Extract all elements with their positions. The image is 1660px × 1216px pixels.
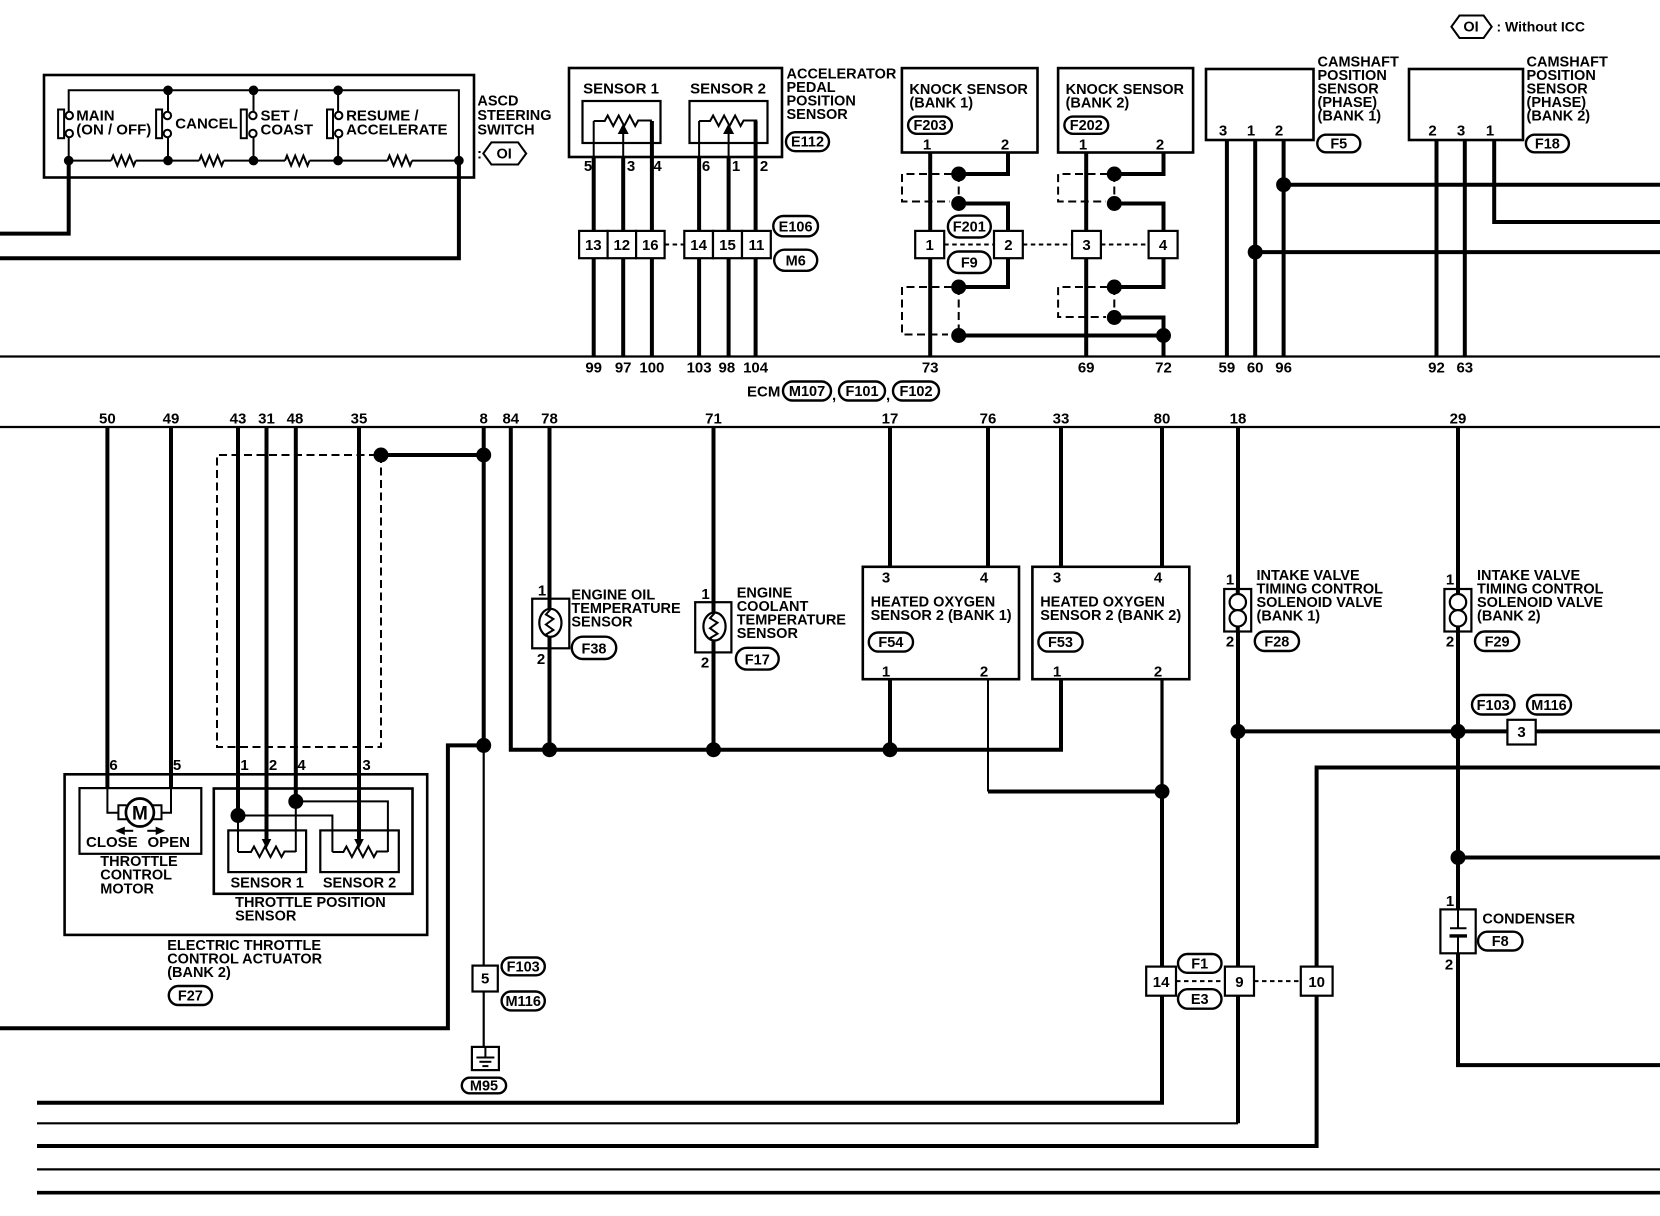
wire: ECM 8 down to ground <box>482 427 486 745</box>
wire: pin1 branch to sensor2 resistor left <box>238 816 332 853</box>
wire: CMP bank1 pin3 to ECM 59 <box>1225 140 1229 357</box>
svg-text:1: 1 <box>882 664 890 681</box>
bottom bus line 5 <box>37 1191 1660 1195</box>
connector F8 <box>1478 932 1523 951</box>
TPS sensor 2 wiper arrow <box>354 839 364 849</box>
shield dashed link G-H <box>1113 287 1115 318</box>
svg-text:43: 43 <box>230 411 247 428</box>
svg-text:SWITCH: SWITCH <box>477 123 534 139</box>
svg-text:M6: M6 <box>786 254 806 270</box>
connector cell 9 (F1/E3) <box>1225 967 1254 996</box>
arrow open (right) <box>147 827 165 835</box>
connector F28 <box>1255 632 1299 652</box>
APP sensor 1 wiper arrow <box>618 124 629 135</box>
node shield D <box>951 328 966 343</box>
symbol: OI hexagon (legend, top right) <box>1451 16 1585 39</box>
node: top rail junction (set/coast) <box>249 86 259 96</box>
svg-text:49: 49 <box>163 411 180 428</box>
shield dashed box (knock bank1 upper) <box>902 174 952 202</box>
svg-text:1: 1 <box>538 583 546 600</box>
svg-text:E112: E112 <box>791 135 824 151</box>
TPS sensor 1 wiper arrow <box>262 839 272 849</box>
wire: shield node B to connector 2 <box>959 204 1008 231</box>
wire: HO2S bank1 pin2 to bank2 pin2 <box>987 679 989 791</box>
svg-text:59: 59 <box>1219 360 1236 377</box>
wire: IVT solenoid ground rail to right edge <box>1238 729 1660 733</box>
svg-text:CONDENSER: CONDENSER <box>1482 912 1575 928</box>
svg-text:80: 80 <box>1154 411 1171 428</box>
APP sensor 1 box <box>583 101 661 143</box>
svg-text:2: 2 <box>1156 137 1164 154</box>
connector cell 4 (F201/F9) <box>1149 231 1178 258</box>
svg-text:2: 2 <box>1428 123 1436 140</box>
wire: ASCD output 2 to left edge <box>0 161 459 259</box>
node: TPS pin1 branch <box>231 808 246 823</box>
svg-text:M107: M107 <box>789 384 825 400</box>
connector cell 2 (F201/F9) <box>994 231 1023 258</box>
svg-text:F29: F29 <box>1485 634 1510 650</box>
wire: pin4 branch to sensor2 resistor right <box>296 801 388 852</box>
intake valve timing control solenoid valve (bank 2) F29 <box>1444 589 1471 632</box>
knock sensor (bank 1) box F203 <box>902 68 1038 152</box>
wire: knock bank2 pin1 to ECM 69 <box>1084 153 1088 357</box>
node: wire 8 joint with ETC ground rail <box>476 738 491 753</box>
svg-text:E3: E3 <box>1191 992 1209 1008</box>
svg-text:1: 1 <box>1053 664 1061 681</box>
svg-text:SENSOR: SENSOR <box>571 615 633 631</box>
connector M116 (right) <box>1527 695 1571 715</box>
wire: CMP bank2 pin3 to ECM 63 <box>1463 140 1467 357</box>
camshaft position sensor (phase) (bank 2) box F18 <box>1409 69 1523 140</box>
svg-text:73: 73 <box>922 360 939 377</box>
wire: connector 4 down to shield node G <box>1114 258 1163 287</box>
svg-text:2: 2 <box>760 158 768 175</box>
connector cell 15 <box>713 231 742 258</box>
svg-text:4: 4 <box>1159 237 1168 254</box>
wire: ASCD output 1 to left edge <box>0 161 69 234</box>
connector cell 16 <box>636 231 665 258</box>
svg-text:ACCELERATE: ACCELERATE <box>346 122 447 139</box>
ECM connector F102 <box>893 382 939 401</box>
svg-text:50: 50 <box>99 411 116 428</box>
svg-text:COAST: COAST <box>261 122 314 139</box>
connector F201 <box>948 216 991 238</box>
svg-text:97: 97 <box>615 360 632 377</box>
svg-text:F28: F28 <box>1264 634 1289 650</box>
electric throttle control actuator (bank 2) outer box F27 <box>65 774 428 935</box>
shield dashed box (knock bank1 lower) <box>902 287 952 335</box>
svg-text:(BANK 1): (BANK 1) <box>909 96 973 112</box>
svg-text:4: 4 <box>980 570 989 587</box>
wire pin4 APP1 <box>650 121 654 357</box>
svg-text:8: 8 <box>480 411 488 428</box>
svg-text:11: 11 <box>748 237 764 254</box>
connector E112 <box>786 132 829 151</box>
node shield top B <box>951 196 966 211</box>
wire pin1 APP2 (wiper) <box>728 133 730 157</box>
wire: CMP bank2 pin1 to right edge y=222 <box>1494 140 1660 222</box>
wire: CMP bank1 pin2 to ECM 96 <box>1282 140 1286 357</box>
node: bottom rail junction (right end) <box>454 156 464 166</box>
node: top rail junction (resume) <box>333 86 343 96</box>
dashed link cells 9-10 <box>1254 980 1301 982</box>
connector F18 <box>1526 135 1569 153</box>
wire: ECM 31 to TPS pin2 <box>265 427 269 839</box>
node: shield top on wire 8 <box>476 448 491 463</box>
APP sensor 2 potentiometer <box>699 116 757 127</box>
wire pin3 APP1 (wiper) <box>622 133 624 157</box>
svg-text:3: 3 <box>882 570 890 587</box>
svg-text:98: 98 <box>719 360 736 377</box>
svg-text:33: 33 <box>1053 411 1070 428</box>
svg-text:76: 76 <box>980 411 997 428</box>
ground M95 <box>472 1047 499 1070</box>
label HEATED OXYGEN SENSOR 2 (BANK 1) <box>871 595 1012 625</box>
svg-text:99: 99 <box>585 360 602 377</box>
svg-text:104: 104 <box>743 360 769 377</box>
label HEATED OXYGEN SENSOR 2 (BANK 2) <box>1040 595 1181 625</box>
svg-text:SENSOR 1: SENSOR 1 <box>583 81 659 98</box>
connector F29 <box>1475 632 1519 652</box>
ECM connector F101 <box>839 382 890 405</box>
svg-text:E106: E106 <box>779 219 813 235</box>
svg-text:SENSOR: SENSOR <box>787 107 849 123</box>
heated oxygen sensor 2 (bank 2) box F53 <box>1032 567 1189 679</box>
wire: HO2S bank1 pin1 to sensor rail <box>888 679 892 750</box>
node shield F <box>1107 196 1122 211</box>
wire: shield H to ECM 72 <box>1114 318 1163 357</box>
svg-text:63: 63 <box>1456 360 1473 377</box>
svg-text:13: 13 <box>585 237 602 254</box>
connector F203 <box>908 117 952 134</box>
wire: line y=767 to right edge with drop to connector 10 <box>37 768 1660 1147</box>
label ACCELERATOR PEDAL POSITION SENSOR <box>787 67 897 124</box>
svg-text:3: 3 <box>362 757 370 774</box>
node shield C <box>951 280 966 295</box>
connector cell 5 (F103/M116) <box>473 966 498 992</box>
wire: ECM 49 to throttle motor pin5 <box>169 427 173 788</box>
wire: shield top to pin 8 wire <box>381 453 484 457</box>
heated oxygen sensor 2 (bank 1) box F54 <box>863 567 1019 679</box>
bottom bus line 4 <box>37 1168 1660 1170</box>
svg-text:1: 1 <box>732 158 740 175</box>
svg-text:CANCEL: CANCEL <box>175 116 238 133</box>
arrow close (left) <box>115 827 133 835</box>
svg-text:ECM: ECM <box>747 384 780 401</box>
wire: IVT bank1 down through connector 9 to bottom line 2 <box>1236 632 1240 1124</box>
svg-text:2: 2 <box>1275 123 1283 140</box>
svg-text:2: 2 <box>1004 237 1012 254</box>
wire pin2 APP2 <box>754 121 758 357</box>
shield dashed box (knock bank2 upper) <box>1058 174 1108 202</box>
ASCD internal top rail <box>69 90 459 160</box>
connector cell 14 <box>684 231 713 258</box>
connector M6 <box>774 250 817 271</box>
wire: branch to right edge y=857 <box>1458 856 1660 860</box>
svg-text:3: 3 <box>1517 724 1525 741</box>
svg-text:1: 1 <box>1079 137 1087 154</box>
APP sensor 2 wiper arrow <box>723 124 734 135</box>
wire: ECM 29 to IVT solenoid bank2 <box>1456 427 1460 589</box>
svg-text:M116: M116 <box>505 994 540 1010</box>
shield dashed box around TPS wires <box>217 455 381 747</box>
dashed link cells 14-9 <box>1176 980 1225 982</box>
connector F17 <box>736 648 779 670</box>
svg-text:2: 2 <box>1154 664 1162 681</box>
svg-text:F203: F203 <box>913 118 946 134</box>
wire: pin1 down to sensor1 resistor left <box>237 816 239 853</box>
svg-text:F17: F17 <box>745 652 770 668</box>
svg-text:(BANK 2): (BANK 2) <box>1527 109 1591 125</box>
node: rail joint wire 71 <box>706 742 721 757</box>
node: O2 ground joint <box>1155 784 1170 799</box>
motor M circle <box>126 799 154 827</box>
label THROTTLE POSITION SENSOR <box>235 895 386 925</box>
svg-text:OI: OI <box>497 146 512 162</box>
wire: condenser to right edge y=1065 <box>1458 953 1660 1065</box>
svg-text:15: 15 <box>719 237 736 254</box>
shield dashed box (knock bank2 lower) <box>1058 287 1108 317</box>
TPS sensor 1 box <box>228 830 306 872</box>
wire: ECM 48 to TPS pin4 <box>294 427 298 801</box>
svg-text:F201: F201 <box>953 220 986 236</box>
connector F103 (ground path) <box>502 958 545 976</box>
svg-text:78: 78 <box>541 411 558 428</box>
svg-text:SENSOR: SENSOR <box>235 909 297 925</box>
svg-text:(BANK 2): (BANK 2) <box>167 965 231 981</box>
svg-text:SENSOR 1: SENSOR 1 <box>231 876 304 892</box>
ECM top boundary line <box>0 355 1660 357</box>
svg-text:69: 69 <box>1078 360 1095 377</box>
svg-text:MOTOR: MOTOR <box>100 881 154 897</box>
wire: knock bank1 pin2 to shield node <box>959 153 1008 175</box>
wire: pin5 to motor right brush <box>162 788 172 813</box>
svg-text:4: 4 <box>297 757 306 774</box>
switch SET / COAST <box>241 90 313 160</box>
connector cell 10 (F1/E3) <box>1301 967 1333 996</box>
connector E106 <box>773 216 818 236</box>
node shield top A <box>951 167 966 182</box>
svg-text:4: 4 <box>653 158 662 175</box>
svg-text:CLOSE: CLOSE <box>86 834 138 851</box>
wire: IVT bank2 continues down to condenser <box>1456 632 1460 910</box>
svg-text:F1: F1 <box>1191 956 1208 972</box>
connector cell 11 <box>742 231 771 258</box>
svg-text:71: 71 <box>705 411 722 428</box>
connector cell 13 <box>579 231 608 258</box>
svg-text:12: 12 <box>613 237 630 254</box>
engine oil temperature sensor F38 <box>532 599 569 649</box>
svg-text:SENSOR 2: SENSOR 2 <box>323 876 396 892</box>
svg-text:(BANK 1): (BANK 1) <box>1257 609 1321 625</box>
svg-text:10: 10 <box>1308 974 1325 991</box>
motor left brush <box>118 805 126 819</box>
dashed link cells 3-4 <box>1101 244 1149 246</box>
label INTAKE VALVE TIMING CONTROL SOLENOID VALVE (BANK 2) <box>1477 568 1604 625</box>
connector E3 <box>1178 989 1222 1009</box>
svg-text:F103: F103 <box>1477 698 1510 714</box>
svg-text:1: 1 <box>923 137 931 154</box>
camshaft position sensor (phase) (bank 1) box F5 <box>1206 69 1314 140</box>
svg-text:14: 14 <box>1153 974 1170 991</box>
svg-text:1: 1 <box>1486 123 1494 140</box>
wire: HO2S bank2 pin2 down through connector 14 to bottom line 1 <box>1160 679 1163 791</box>
TPS sensor 2 box <box>320 830 399 872</box>
svg-text:2: 2 <box>1446 634 1454 651</box>
svg-text:F54: F54 <box>878 635 903 651</box>
svg-text:F202: F202 <box>1070 118 1103 134</box>
svg-text:100: 100 <box>639 360 664 377</box>
svg-text:72: 72 <box>1155 360 1172 377</box>
APP sensor 2 box <box>690 101 768 143</box>
connector cell 3 (F201/F9) <box>1072 231 1101 258</box>
svg-text:F18: F18 <box>1535 136 1560 152</box>
svg-text:1: 1 <box>1446 572 1454 589</box>
label CAMSHAFT POSITION SENSOR (PHASE) (BANK 2) <box>1527 55 1608 125</box>
wire: CMP bank2 pin2 to ECM 92 <box>1435 140 1439 357</box>
connector cell 3 (F103/M116) <box>1507 720 1535 745</box>
engine coolant temperature sensor F17 <box>695 602 731 652</box>
svg-text:6: 6 <box>702 158 710 175</box>
label ELECTRIC THROTTLE CONTROL ACTUATOR (BANK 2) <box>167 938 322 981</box>
svg-text:31: 31 <box>258 411 275 428</box>
node: bottom rail junction (cancel) <box>163 156 173 166</box>
svg-text:OI: OI <box>1463 20 1478 36</box>
svg-text:(BANK 2): (BANK 2) <box>1066 96 1130 112</box>
svg-text:F5: F5 <box>1330 136 1347 152</box>
wire: ECM 35 to TPS pin3 <box>357 427 361 839</box>
svg-text:M: M <box>132 804 148 825</box>
resistor R4 (resume-end) <box>388 156 413 166</box>
svg-text:60: 60 <box>1247 360 1264 377</box>
motor right brush <box>153 805 162 819</box>
connector cell 14 (F1/E3) <box>1146 967 1176 996</box>
svg-text:35: 35 <box>351 411 368 428</box>
svg-text:18: 18 <box>1230 411 1247 428</box>
svg-text:OPEN: OPEN <box>148 834 191 851</box>
svg-text:M116: M116 <box>1531 698 1566 714</box>
svg-text:1: 1 <box>926 237 934 254</box>
svg-text:17: 17 <box>882 411 899 428</box>
connector F1 <box>1178 954 1222 973</box>
svg-text:5: 5 <box>173 757 181 774</box>
node shield G <box>1107 280 1122 295</box>
svg-text:3: 3 <box>1082 237 1090 254</box>
label ENGINE COOLANT TEMPERATURE SENSOR <box>737 586 847 643</box>
wire: ECM 18 to IVT solenoid bank1 <box>1236 427 1240 589</box>
svg-text:92: 92 <box>1428 360 1445 377</box>
symbol: OI hexagon (ASCD) <box>477 142 526 164</box>
label ASCD STEERING SWITCH <box>477 94 551 139</box>
svg-text:3: 3 <box>627 158 635 175</box>
connector M95 <box>462 1078 506 1095</box>
wire: connector 2 down to shield node C <box>959 258 1008 287</box>
switch RESUME / ACCELERATE <box>327 90 447 160</box>
svg-text:4: 4 <box>1154 570 1163 587</box>
node: IVT bank1 joint ground rail <box>1231 724 1246 739</box>
svg-text:48: 48 <box>287 411 304 428</box>
connector F9 <box>948 252 991 274</box>
svg-text:84: 84 <box>502 411 519 428</box>
wire: ECM 80 to HO2S bank2 pin4 <box>1160 427 1164 567</box>
wire: ETC ground rail (left edge to wire 8) <box>0 745 484 1028</box>
svg-text:1: 1 <box>701 586 709 603</box>
svg-text:3: 3 <box>1219 123 1227 140</box>
connector cell 1 (F201/F9) <box>915 231 944 258</box>
ASCD internal bottom rail <box>69 160 459 162</box>
accelerator pedal position sensor outer box E112 <box>569 68 782 157</box>
wire: shield D to ECM 72 joint <box>959 334 1164 338</box>
node shield E <box>1107 167 1122 182</box>
svg-text:29: 29 <box>1450 411 1467 428</box>
node: rail joint wire 78 <box>542 742 557 757</box>
knock sensor (bank 2) box F202 <box>1058 68 1193 152</box>
ECM connector M107 <box>783 382 836 405</box>
svg-text:F38: F38 <box>582 642 607 658</box>
svg-text:6: 6 <box>109 757 117 774</box>
wire: ECM 76 to HO2S bank1 pin4 <box>986 427 990 567</box>
svg-text:(ON / OFF): (ON / OFF) <box>76 122 151 139</box>
TPS sensor 2 resistor <box>332 847 388 858</box>
svg-text:,: , <box>832 387 836 404</box>
wire: knock bank1 pin1 to ECM 73 <box>928 153 932 357</box>
dashed link between connector halves <box>665 244 685 246</box>
connector F202 <box>1064 117 1108 134</box>
svg-text:14: 14 <box>690 237 707 254</box>
wire: ECM 43 to TPS pin1 <box>236 427 240 816</box>
TPS sensor 1 resistor <box>238 847 296 858</box>
svg-text:F8: F8 <box>1492 934 1509 950</box>
wire: ECM 71 to coolant temp sensor <box>712 427 716 750</box>
wire: ECM 33 to HO2S bank2 pin3 <box>1059 427 1063 567</box>
svg-text:2: 2 <box>1226 634 1234 651</box>
connector F103 (right) <box>1472 695 1515 715</box>
svg-text:SENSOR: SENSOR <box>737 626 799 642</box>
svg-text:1: 1 <box>1446 893 1454 910</box>
resistor R2 (cancel-set) <box>199 156 224 166</box>
svg-text:SENSOR 2 (BANK 1): SENSOR 2 (BANK 1) <box>871 608 1012 624</box>
svg-text:9: 9 <box>1235 974 1243 991</box>
svg-text:2: 2 <box>537 651 545 668</box>
svg-text:1: 1 <box>240 757 248 774</box>
wire: CMP bank1 pin1 to ECM 60 <box>1253 140 1257 357</box>
throttle position sensor box <box>214 789 413 894</box>
wire: pin6 to motor left brush <box>107 788 118 813</box>
node: CMP bank1 pin2 branch <box>1276 177 1291 192</box>
svg-text:2: 2 <box>980 664 988 681</box>
node: bottom rail junction (resume) <box>333 156 343 166</box>
svg-text:F27: F27 <box>178 989 203 1005</box>
svg-text:(BANK 2): (BANK 2) <box>1477 609 1541 625</box>
label CAMSHAFT POSITION SENSOR (PHASE) (BANK 1) <box>1318 55 1399 125</box>
node: bottom rail junction (main) <box>64 156 74 166</box>
svg-text:SENSOR 2 (BANK 2): SENSOR 2 (BANK 2) <box>1040 608 1181 624</box>
connector F27 <box>169 986 212 1005</box>
node shield H <box>1107 310 1122 325</box>
label ENGINE OIL TEMPERATURE SENSOR <box>571 588 681 631</box>
svg-text:: Without ICC: : Without ICC <box>1497 19 1586 35</box>
wire pin5 APP1 <box>593 121 595 157</box>
svg-text:1: 1 <box>1247 123 1255 140</box>
svg-text:2: 2 <box>1445 957 1453 974</box>
svg-text:3: 3 <box>1457 123 1465 140</box>
shield dashed link E-F <box>1113 174 1115 204</box>
svg-text:103: 103 <box>687 360 712 377</box>
ECM bottom boundary line <box>0 426 1660 428</box>
switch MAIN (ON/OFF) <box>58 108 151 161</box>
svg-text:1: 1 <box>1226 572 1234 589</box>
intake valve timing control solenoid valve (bank 1) F28 <box>1224 589 1251 632</box>
